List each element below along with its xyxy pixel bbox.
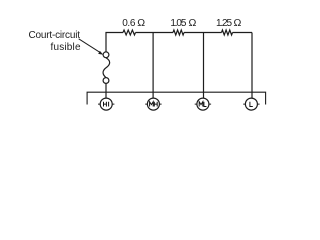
label terminal MH (150, 102, 158, 107)
wire drop MH (152, 33, 154, 99)
svg-text:0.6: 0.6 (122, 18, 136, 29)
svg-text:Ω: Ω (234, 17, 242, 29)
terminal ML circle (197, 98, 209, 110)
svg-text:fusible: fusible (51, 42, 81, 53)
svg-text:Court-circuit: Court-circuit (29, 30, 81, 41)
wire R3 to right corner (233, 32, 253, 34)
fuse F1 element (103, 58, 110, 78)
wire top-left segment (106, 33, 123, 52)
terminal L circle (245, 98, 257, 110)
wire R2 to R3 (184, 32, 222, 34)
terminal MH circle (147, 98, 159, 110)
leader arrowhead (98, 51, 103, 55)
resistor R2 (173, 30, 184, 35)
svg-text:1.05: 1.05 (170, 18, 186, 29)
wire fuse to HI (105, 83, 107, 98)
resistor R3 (222, 30, 233, 35)
label terminal ML (199, 102, 206, 107)
resistor R1 (123, 30, 135, 35)
wire drop L (251, 33, 253, 99)
fuse F1 bottom circle (103, 78, 109, 84)
svg-text:Ω: Ω (189, 17, 197, 29)
svg-text:1.25: 1.25 (216, 18, 232, 29)
terminal HI circle (100, 98, 112, 110)
leader line (79, 39, 101, 53)
label terminal L (250, 102, 253, 107)
wire drop ML (203, 33, 205, 99)
label terminal HI (104, 102, 109, 107)
busbar common (87, 92, 266, 104)
wire R1 to R2 (136, 32, 174, 34)
svg-text:Ω: Ω (137, 17, 145, 29)
fuse F1 top circle (103, 52, 109, 58)
